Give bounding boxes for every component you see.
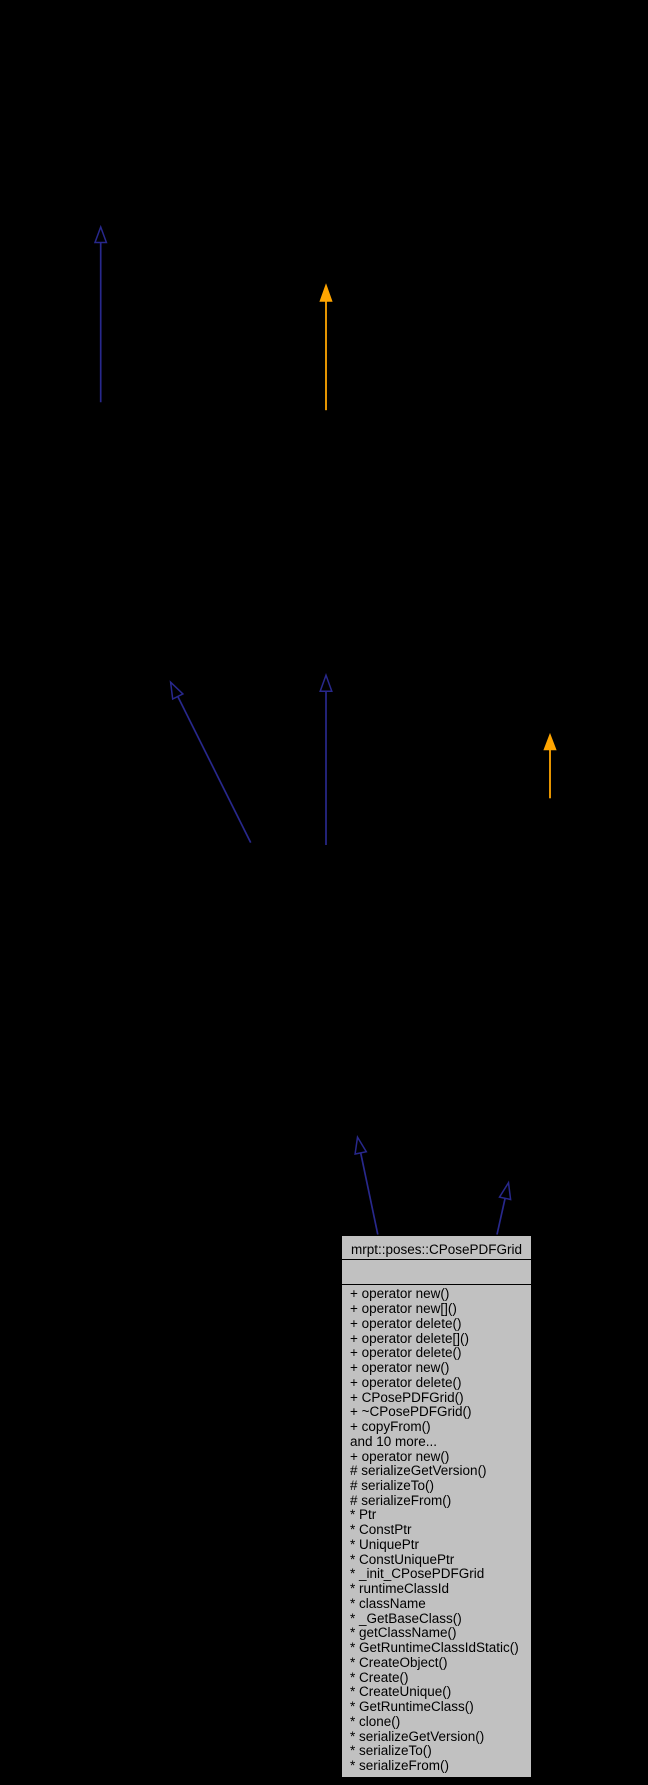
wire: template relation arrow shaft E (orange, middle-right) — [549, 748, 551, 798]
wire: inheritance arrow shaft G (into class box, right) — [497, 1198, 505, 1234]
node F: hollow inheritance arrowhead — [355, 1137, 366, 1154]
node A: hollow inheritance arrowhead (top-left) — [95, 227, 106, 243]
wire: inheritance arrow shaft F (into class box, left) — [361, 1153, 378, 1235]
wire: template relation arrow shaft B (orange, top-middle) — [325, 299, 327, 410]
wire: inheritance arrow shaft C (diagonal, middle-left) — [178, 697, 251, 843]
class box mrpt::poses::CPosePDFGrid — [341, 1235, 532, 1779]
node G: hollow inheritance arrowhead — [500, 1183, 511, 1200]
node E: filled orange arrowhead — [544, 734, 556, 750]
node B: filled orange arrowhead — [320, 285, 332, 302]
wire: inheritance arrow shaft A (top-left) — [100, 242, 102, 402]
wire: inheritance arrow shaft D (vertical, middle) — [325, 691, 327, 845]
node C: hollow inheritance arrowhead (diagonal) — [171, 682, 183, 699]
node D: hollow inheritance arrowhead (vertical, middle) — [320, 675, 332, 691]
